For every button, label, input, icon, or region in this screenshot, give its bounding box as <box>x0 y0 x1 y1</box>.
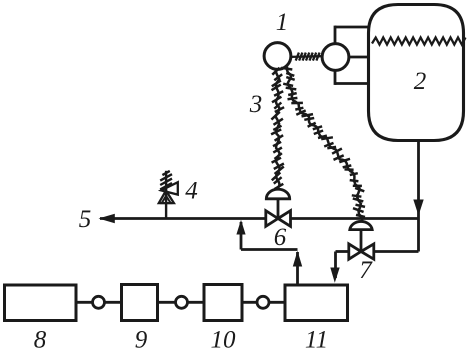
svg-text:7: 7 <box>359 257 373 284</box>
svg-text:6: 6 <box>274 224 287 251</box>
safety valve 4 : inner triangle <box>162 196 171 203</box>
svg-text:9: 9 <box>135 327 148 351</box>
svg-text:5: 5 <box>79 206 92 233</box>
pump 1 (circle) <box>264 43 291 70</box>
arrow into controller 11 <box>330 268 339 283</box>
bracket connecting motor circle to tank <box>335 26 370 85</box>
controller box 11 <box>285 285 348 321</box>
control valve 6 : actuator dome <box>266 189 289 199</box>
downpipe from tank 2 <box>417 139 420 252</box>
motor circle (coupled to pump 1) <box>322 44 349 71</box>
junction circle between 10 and 11 <box>257 296 269 308</box>
heated line 3 (vertical run to valve 6) <box>271 68 284 191</box>
control valve 7 : body <box>349 244 374 259</box>
arrow down on tank downpipe <box>413 200 423 216</box>
main horizontal line to outlet 5 <box>100 217 419 220</box>
tank 2 (vessel) <box>369 5 464 141</box>
safety valve 4 : outer triangle <box>159 191 174 204</box>
svg-text:3: 3 <box>249 91 263 118</box>
arrow to outlet 5 <box>99 214 115 224</box>
svg-text:11: 11 <box>305 327 328 351</box>
control valve 7 : stem <box>360 230 363 252</box>
svg-text:2: 2 <box>414 68 427 95</box>
svg-text:4: 4 <box>185 178 198 205</box>
arrow up at main line <box>236 220 245 235</box>
svg-text:1: 1 <box>276 9 289 36</box>
junction circle between 8 and 9 <box>93 296 105 308</box>
liquid level zigzag in tank 2 <box>372 38 466 45</box>
heated line 3 (diagonal run to valve 7) <box>281 67 365 222</box>
svg-text:8: 8 <box>34 327 47 351</box>
sensor box 8 <box>5 285 77 321</box>
pipe from valve 7 to controller 11 <box>336 250 349 253</box>
safety valve 4 : spring <box>160 171 172 219</box>
wavy coupling between pump 1 and motor <box>291 53 323 61</box>
pipe from junction down to valve 7 <box>374 250 419 253</box>
control valve 6 : body <box>266 211 291 227</box>
box 10 <box>204 285 242 321</box>
arrow up at signal junction <box>293 251 302 267</box>
svg-text:10: 10 <box>211 327 237 351</box>
control valve 7 : actuator dome <box>350 221 372 229</box>
bottom row connecting line <box>76 301 122 304</box>
signal line from controller 11 up to main line <box>240 222 243 250</box>
safety valve 4 : side outlet triangle <box>161 182 178 194</box>
box 9 <box>122 285 158 321</box>
junction circle between 9 and 10 <box>176 296 188 308</box>
control valve 6 : stem <box>277 199 280 219</box>
